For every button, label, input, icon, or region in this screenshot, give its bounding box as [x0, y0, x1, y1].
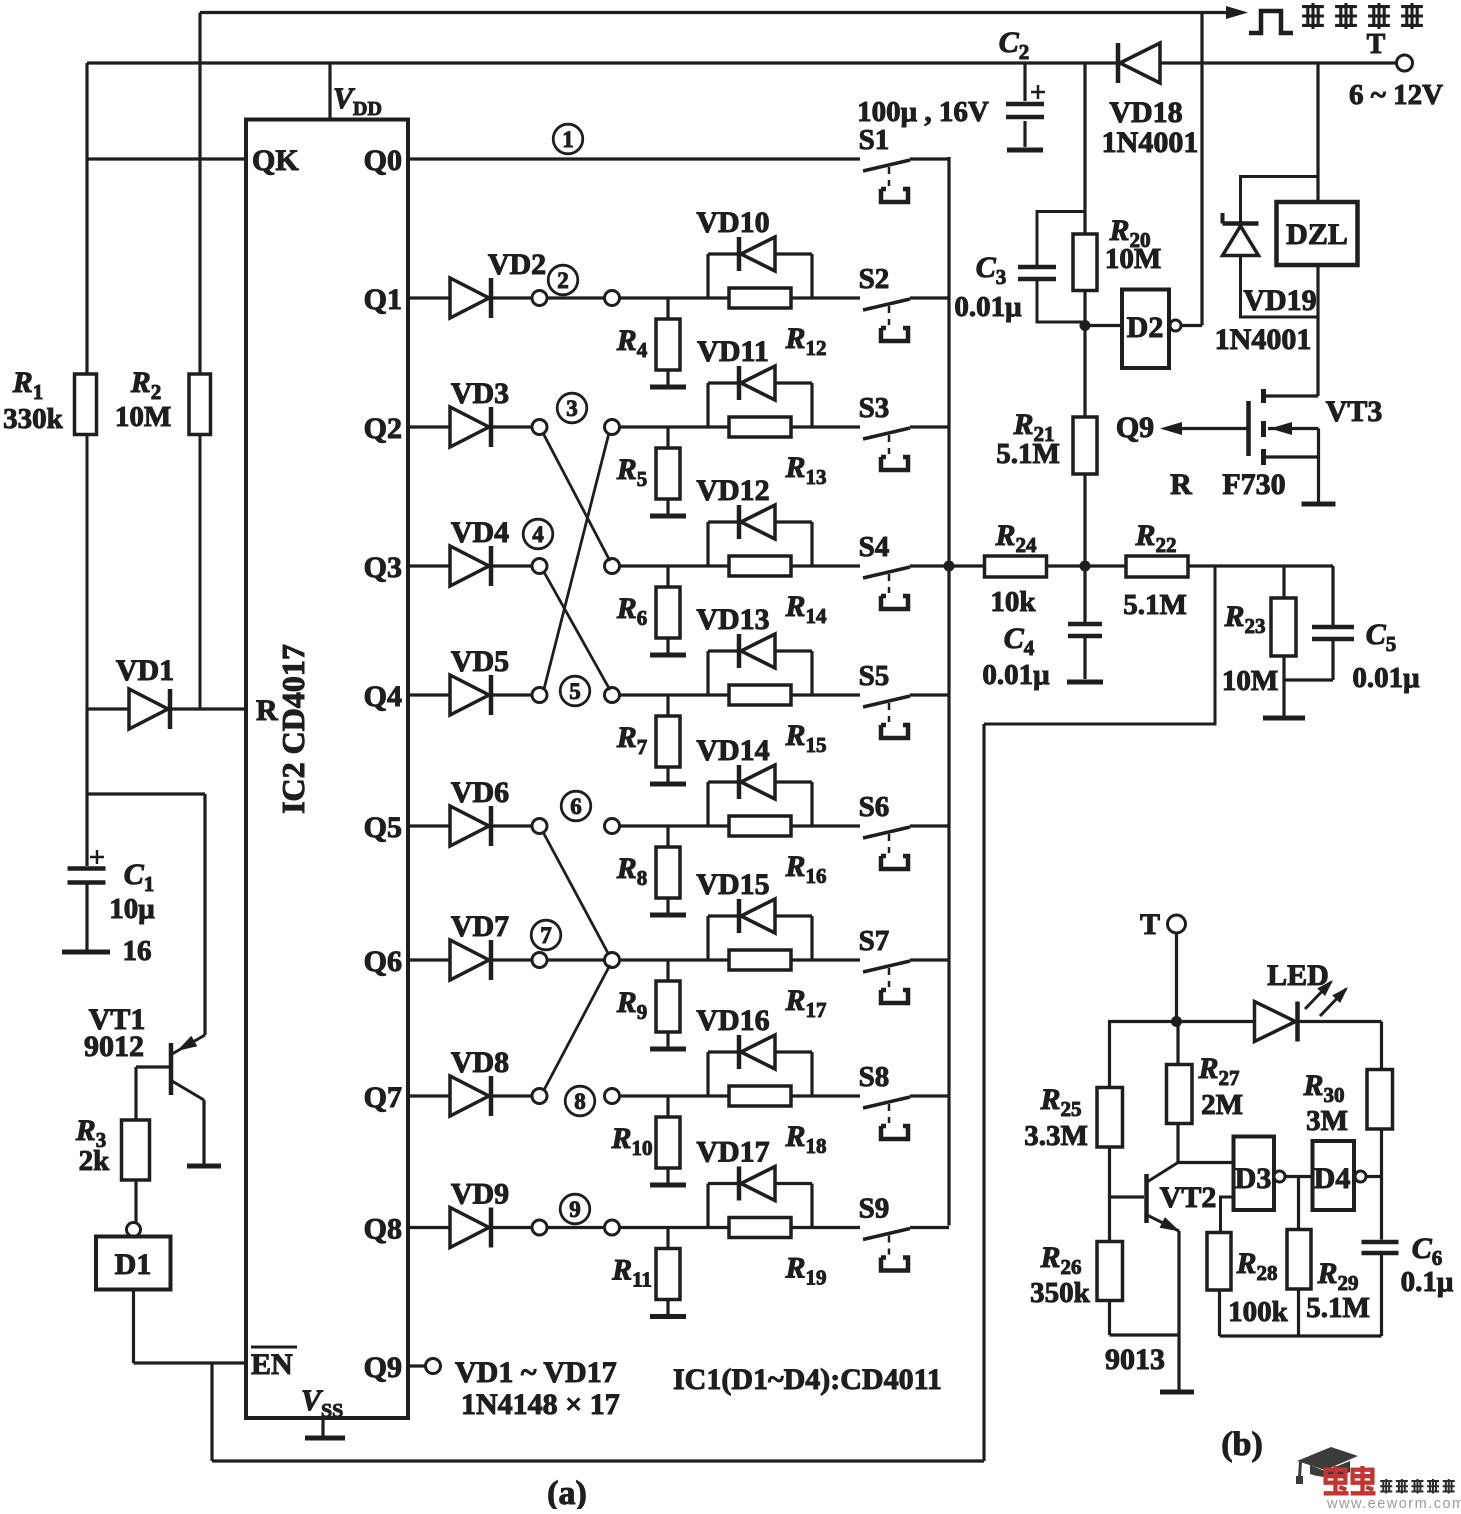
gate D2 — [1085, 290, 1181, 369]
wire Q0 row — [408, 157, 860, 160]
svg-text:2k: 2k — [79, 1145, 111, 1177]
wire D3 out to D4 — [1285, 1175, 1314, 1178]
svg-text:10M: 10M — [115, 401, 171, 433]
svg-text:4: 4 — [532, 522, 544, 547]
resistor R2 10M — [115, 13, 211, 710]
svg-text:VD6: VD6 — [451, 776, 509, 809]
svg-text:3: 3 — [566, 396, 578, 421]
resistor R21 5.1M — [996, 326, 1097, 567]
wire V+ supply rail — [87, 63, 1397, 374]
pin VSS — [301, 1384, 343, 1422]
wire C1 node — [87, 709, 205, 866]
svg-text:LED: LED — [1267, 959, 1329, 992]
resistor R1 330k — [3, 63, 96, 709]
transistor VT1 9012 — [84, 794, 205, 1164]
node circle row 7 left — [493, 953, 547, 968]
pin Q9 — [364, 1351, 441, 1384]
svg-text:T: T — [1367, 29, 1386, 60]
svg-text:VT2: VT2 — [1160, 1181, 1217, 1214]
capacitor C1 10u/16 — [68, 850, 156, 967]
pin Q4 — [364, 680, 402, 713]
alarm pulse arrowhead — [1226, 6, 1248, 19]
diode VD13 bridge — [696, 603, 812, 695]
resistor R23 10M — [1222, 566, 1296, 716]
label VD1~VD17 1N4148x17 — [455, 1356, 620, 1421]
svg-text:9012: 9012 — [84, 1030, 144, 1063]
svg-text:VD1 ~ VD17: VD1 ~ VD17 — [455, 1356, 617, 1389]
svg-text:VD18: VD18 — [1109, 96, 1182, 129]
node S4 junction — [944, 561, 955, 572]
svg-text:VD14: VD14 — [696, 734, 769, 767]
pin Q2 — [364, 412, 402, 445]
svg-text:2M: 2M — [1201, 1089, 1243, 1121]
diode VD17 bridge — [696, 1136, 812, 1228]
svg-text:Q0: Q0 — [364, 144, 402, 177]
wire — [620, 425, 861, 428]
svg-text:Q1: Q1 — [364, 283, 402, 316]
wire alarm pulse top rail — [200, 13, 1236, 375]
diode VD7 — [408, 910, 509, 980]
svg-text:9013: 9013 — [1105, 1343, 1165, 1376]
ground VT3 source — [1302, 502, 1336, 507]
pin QK — [87, 144, 299, 177]
svg-text:QK: QK — [252, 144, 299, 177]
diode VD15 bridge — [696, 868, 812, 960]
node circle row 4 left — [493, 559, 547, 574]
pin Q8 — [364, 1213, 402, 1246]
svg-text:3M: 3M — [1306, 1105, 1348, 1137]
switch S4 — [859, 531, 949, 609]
node net 9 — [560, 1194, 590, 1224]
ground R4 — [650, 385, 686, 390]
wire D4 out — [1366, 1175, 1382, 1178]
svg-text:10k: 10k — [990, 586, 1036, 618]
svg-text:350k: 350k — [1030, 1277, 1091, 1309]
label IC2 CD4017 — [275, 644, 311, 814]
diode VD8 — [408, 1046, 509, 1116]
ground C4 — [1067, 680, 1103, 685]
ground VSS — [305, 1418, 345, 1438]
svg-text:EN: EN — [251, 1348, 293, 1381]
svg-text:S4: S4 — [859, 531, 890, 563]
svg-text:0.01μ: 0.01μ — [954, 291, 1022, 323]
svg-text:0.01μ: 0.01μ — [982, 659, 1050, 691]
wire net4 to row5 — [544, 572, 610, 690]
svg-text:VD15: VD15 — [696, 868, 769, 901]
svg-text:2: 2 — [557, 268, 569, 293]
wire D1 to EN — [134, 1290, 247, 1364]
gate D1 — [96, 1223, 171, 1290]
wire D3 input2 to R28 — [1221, 1197, 1234, 1233]
wire (b) top rail — [1108, 1020, 1382, 1023]
svg-text:Q3: Q3 — [364, 551, 402, 584]
label 6~12V — [1349, 79, 1443, 111]
resistor R4 — [616, 298, 680, 385]
wire — [620, 296, 861, 299]
svg-text:100μ , 16V: 100μ , 16V — [857, 96, 989, 128]
node R24/R22 junction — [1080, 561, 1091, 572]
node circle row 2 right — [605, 291, 620, 306]
capacitor C6 0.1u — [1362, 1232, 1454, 1336]
svg-text:D3: D3 — [1235, 1162, 1272, 1195]
diode VD14 bridge — [696, 734, 812, 826]
svg-text:5.1M: 5.1M — [996, 438, 1060, 470]
svg-text:D4: D4 — [1314, 1162, 1351, 1195]
node circle row 5 left — [493, 688, 547, 703]
resistor R12 — [729, 288, 827, 360]
label (a) — [547, 1475, 587, 1512]
svg-text:16: 16 — [123, 935, 152, 967]
pin EN — [251, 1347, 297, 1381]
node net 5 — [560, 676, 590, 706]
bell DZL — [1277, 202, 1358, 265]
resistor R14 — [729, 556, 827, 628]
svg-text:3.3M: 3.3M — [1024, 1120, 1088, 1152]
svg-text:10μ: 10μ — [109, 893, 155, 925]
svg-text:R: R — [1170, 468, 1192, 501]
capacitor C3 0.01u — [954, 212, 1085, 324]
wire switch bus — [947, 157, 950, 1226]
wire — [547, 296, 605, 299]
gate D3 — [1234, 1137, 1286, 1211]
svg-text:Q4: Q4 — [364, 680, 402, 713]
wire (b) right bottom rail — [1220, 1334, 1382, 1337]
wire — [620, 693, 861, 696]
node circle row 6 left — [493, 819, 547, 834]
diode VD16 bridge — [696, 1004, 812, 1096]
switch S1 — [859, 124, 949, 202]
capacitor C2 100u/16V — [857, 26, 1045, 147]
label IC1(D1~D4):CD4011 — [673, 1363, 942, 1396]
ground C2 — [1007, 148, 1043, 153]
node circle row 9 right — [605, 1220, 620, 1235]
switch S7 — [859, 925, 949, 1003]
node circle row 4 right — [605, 559, 620, 574]
ground R7 — [650, 782, 686, 787]
node circle row 2 left — [493, 291, 547, 306]
svg-text:5: 5 — [569, 679, 581, 704]
svg-text:VD13: VD13 — [696, 603, 769, 636]
svg-text:7: 7 — [540, 923, 552, 948]
svg-text:6 ~ 12V: 6 ~ 12V — [1349, 79, 1443, 111]
ground R11 — [650, 1314, 686, 1319]
diode VD2 — [408, 248, 546, 318]
resistor R28 100k — [1207, 1233, 1289, 1337]
switch S3 — [859, 392, 949, 470]
svg-text:1: 1 — [562, 127, 574, 152]
watermark logo — [1296, 1447, 1461, 1512]
svg-text:Q5: Q5 — [364, 811, 402, 844]
resistor R18 — [729, 1086, 827, 1158]
LED — [1255, 959, 1349, 1042]
svg-text:D2: D2 — [1127, 311, 1164, 344]
svg-text:VD12: VD12 — [696, 474, 769, 507]
svg-text:VD19: VD19 — [1243, 284, 1316, 317]
svg-text:10M: 10M — [1222, 665, 1278, 697]
capacitor C5 0.01u — [1284, 566, 1420, 694]
svg-text:VD9: VD9 — [451, 1178, 509, 1211]
svg-text:Q9: Q9 — [364, 1351, 402, 1384]
switch S5 — [859, 660, 949, 738]
IC U-IC2 CD4017 box — [246, 120, 408, 1419]
svg-text:S9: S9 — [859, 1193, 890, 1225]
svg-text:S5: S5 — [859, 660, 890, 692]
svg-text:Q9: Q9 — [1116, 411, 1154, 444]
wire — [620, 564, 861, 567]
svg-text:1N4148 × 17: 1N4148 × 17 — [461, 1388, 620, 1421]
ground C1 — [62, 950, 110, 955]
svg-text:www.eeworm.com: www.eeworm.com — [1326, 1496, 1461, 1509]
svg-text:VD17: VD17 — [696, 1136, 769, 1169]
svg-text:VD16: VD16 — [696, 1004, 769, 1037]
svg-text:S6: S6 — [859, 791, 890, 823]
node net 1 — [553, 124, 583, 154]
transistor VT3 F730 MOSFET — [1116, 265, 1383, 502]
svg-text:1N4001: 1N4001 — [1215, 323, 1312, 356]
resistor R13 — [729, 417, 827, 489]
terminal T (b) — [1140, 908, 1186, 1022]
node circle row 9 left — [493, 1220, 547, 1235]
wire net8 to row7 — [544, 965, 610, 1090]
switch S2 — [859, 263, 949, 341]
resistor R11 — [611, 1228, 680, 1315]
wire D2 output to alarm rail — [1181, 13, 1202, 326]
resistor R27 2M — [1167, 1022, 1243, 1163]
svg-text:(b): (b) — [1221, 1426, 1263, 1463]
svg-text:10M: 10M — [1105, 243, 1161, 275]
wire R22 node to bottom bus — [984, 566, 1215, 724]
svg-text:VD4: VD4 — [451, 516, 509, 549]
svg-text:6: 6 — [570, 794, 582, 819]
node circle row 7 right — [605, 953, 620, 968]
diode VD3 — [408, 377, 509, 447]
pin R — [256, 694, 278, 727]
wire net5 to row3 — [544, 433, 609, 689]
resistor R16 — [729, 816, 827, 888]
svg-text:S1: S1 — [859, 124, 890, 156]
node net 8 — [565, 1086, 595, 1116]
pin Q0 — [364, 144, 402, 177]
svg-text:VD11: VD11 — [697, 335, 769, 368]
svg-text:VD1: VD1 — [116, 654, 174, 687]
diode VD19 1N4001 zener — [1215, 177, 1318, 357]
node net 3 — [557, 393, 587, 423]
svg-text:VD5: VD5 — [451, 645, 509, 678]
resistor R15 — [729, 685, 827, 757]
svg-text:Q6: Q6 — [364, 945, 402, 978]
wire — [620, 824, 861, 827]
resistor R6 — [616, 566, 680, 653]
resistor R9 — [616, 960, 680, 1047]
svg-text:VD10: VD10 — [696, 206, 769, 239]
node net 2 — [548, 265, 578, 295]
diode VD1 — [87, 654, 246, 729]
switch S8 — [859, 1061, 949, 1139]
resistor R7 — [616, 695, 680, 782]
diode VD4 — [408, 516, 509, 586]
pulse waveform symbol — [1249, 11, 1293, 33]
svg-text:9: 9 — [569, 1197, 581, 1222]
svg-text:0.1μ: 0.1μ — [1401, 1266, 1454, 1298]
svg-text:Q2: Q2 — [364, 412, 402, 445]
svg-text:IC2 CD4017: IC2 CD4017 — [275, 644, 311, 814]
capacitor C4 0.01u — [982, 566, 1102, 691]
label 报警脉冲 — [1302, 3, 1423, 29]
resistor R8 — [616, 826, 680, 913]
pin Q3 — [364, 551, 402, 584]
svg-text:T: T — [1140, 908, 1160, 941]
diode VD6 — [408, 776, 509, 846]
wire supply to DZL — [1316, 63, 1319, 202]
node T junction (b) — [1171, 1016, 1182, 1027]
wire — [620, 958, 861, 961]
node circle row 8 left — [493, 1089, 547, 1104]
ground VT1 collector — [187, 1164, 221, 1169]
node net 4 — [523, 519, 553, 549]
diode VD5 — [408, 645, 509, 715]
svg-text:DZL: DZL — [1286, 218, 1348, 251]
ground R8 — [650, 913, 686, 918]
svg-text:5.1M: 5.1M — [1306, 1292, 1370, 1324]
wire net3 to row4 — [543, 433, 610, 561]
resistor R5 — [616, 427, 680, 514]
transistor VT2 9013 — [1105, 1163, 1216, 1391]
label (b) — [1221, 1426, 1263, 1463]
svg-text:VT3: VT3 — [1326, 395, 1383, 428]
gate D4 — [1313, 1141, 1367, 1210]
diode VD18 1N4001 — [1102, 43, 1199, 159]
svg-text:1N4001: 1N4001 — [1102, 126, 1199, 159]
pin Q6 — [364, 945, 402, 978]
wire — [547, 958, 605, 961]
svg-text:0.01μ: 0.01μ — [1352, 662, 1420, 694]
wire (b) left bottom rail — [1110, 1333, 1180, 1336]
resistor R26 350k — [1030, 1197, 1122, 1335]
node R20/C3/D2 junction — [1080, 320, 1091, 331]
ground R6 — [650, 653, 686, 658]
ground R5 — [650, 514, 686, 519]
svg-text:(a): (a) — [547, 1475, 587, 1509]
resistor R25 3.3M — [1024, 1022, 1122, 1198]
svg-text:8: 8 — [574, 1089, 586, 1114]
ground R10 — [650, 1183, 686, 1188]
svg-text:IC1(D1~D4):CD4011: IC1(D1~D4):CD4011 — [673, 1363, 942, 1396]
resistor R17 — [729, 950, 827, 1022]
switch S6 — [859, 791, 949, 869]
svg-text:VD2: VD2 — [488, 248, 546, 281]
svg-text:S8: S8 — [859, 1061, 890, 1093]
svg-text:Q8: Q8 — [364, 1213, 402, 1246]
node circle row 3 left — [493, 420, 547, 435]
svg-text:S7: S7 — [859, 925, 890, 957]
diode VD10 bridge — [696, 206, 812, 298]
switch S9 — [859, 1193, 949, 1271]
resistor R24 10k — [949, 519, 1085, 618]
svg-text:330k: 330k — [3, 403, 64, 435]
diode VD9 — [408, 1178, 509, 1248]
pin VDD — [330, 63, 382, 120]
svg-text:S3: S3 — [859, 392, 890, 424]
resistor R3 2k — [75, 1067, 150, 1222]
node net 6 — [561, 791, 591, 821]
resistor R20 10M — [1073, 63, 1161, 326]
ground VT2 emitter — [1160, 1390, 1194, 1395]
node circle row 8 right — [605, 1089, 620, 1104]
terminal T top — [1367, 29, 1413, 71]
ground R23 — [1263, 716, 1305, 721]
svg-text:D1: D1 — [115, 1248, 152, 1281]
svg-text:100k: 100k — [1228, 1296, 1289, 1328]
pin Q5 — [364, 811, 402, 844]
ground R9 — [650, 1047, 686, 1052]
resistor R30 3M — [1302, 1022, 1392, 1240]
node net 7 — [531, 920, 561, 950]
node circle row 6 right — [605, 819, 620, 834]
wire EN to bottom bus — [212, 724, 984, 1461]
node circle row 5 right — [605, 688, 620, 703]
resistor R22 5.1M — [1085, 519, 1333, 621]
wire — [620, 1226, 861, 1229]
svg-text:S2: S2 — [859, 263, 890, 295]
diode VD11 bridge — [697, 335, 812, 427]
wire net6 to row7 — [543, 832, 609, 955]
pin Q1 — [364, 283, 402, 316]
svg-text:F730: F730 — [1222, 468, 1285, 501]
wire — [620, 1094, 861, 1097]
node circle row 3 right — [605, 420, 620, 435]
resistor R29 5.1M — [1287, 1177, 1370, 1337]
svg-text:R: R — [256, 694, 278, 727]
diode VD12 bridge — [696, 474, 812, 566]
wire collector to D3 — [1178, 1161, 1234, 1164]
svg-text:VD7: VD7 — [451, 910, 509, 943]
wire — [547, 1226, 605, 1229]
resistor R19 — [729, 1218, 827, 1290]
svg-text:VD8: VD8 — [451, 1046, 509, 1079]
svg-text:Q7: Q7 — [364, 1081, 402, 1114]
resistor R10 — [610, 1096, 680, 1183]
svg-text:5.1M: 5.1M — [1123, 589, 1187, 621]
svg-text:VD3: VD3 — [451, 377, 509, 410]
pin Q7 — [364, 1081, 402, 1114]
